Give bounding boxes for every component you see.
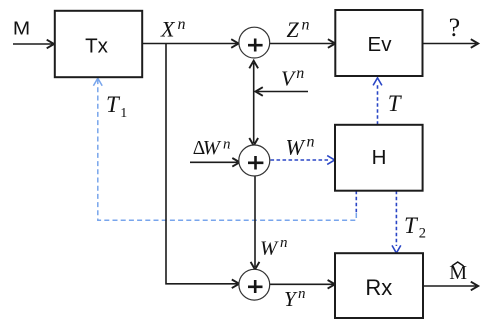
wire H-bottom vertical dark dashed segment (355, 191, 357, 214)
svg-text:X: X (160, 16, 176, 41)
svg-text:n: n (280, 235, 288, 251)
svg-text:2: 2 (419, 225, 426, 241)
svg-text:n: n (302, 17, 310, 34)
svg-text:Tx: Tx (85, 35, 108, 57)
svg-text:W: W (203, 137, 222, 159)
wire Tx output Xn to summer S1 (142, 39, 238, 48)
svg-text:Ev: Ev (368, 33, 393, 56)
wire M input arrow into Tx (13, 40, 54, 49)
label T2 (404, 213, 426, 242)
label Mhat (449, 262, 467, 284)
svg-text:n: n (223, 137, 231, 153)
wire Wn dashed from summer S2 to H (271, 159, 329, 161)
wire Xn branch down and right into summer S3 (166, 44, 239, 289)
wire T dashed from H top to Ev bottom (377, 85, 379, 125)
svg-text:n: n (307, 133, 315, 150)
arrowhead T1 into Tx (open chevron up, light blue) (93, 78, 102, 86)
label Wn middle (286, 133, 315, 159)
svg-text:T: T (106, 92, 121, 117)
wire Zn from summer S1 to Ev (269, 39, 335, 48)
arrowhead Wn into H (open chevron right, blue) (327, 156, 335, 165)
wire Rx output Mhat arrow (423, 282, 478, 291)
wire Ev output to question mark (423, 39, 479, 48)
svg-text:T: T (388, 91, 403, 116)
wire Yn from summer S3 to Rx (270, 280, 335, 289)
wire vertical between summer S1 and summer S2 (arrows both ends) (249, 61, 258, 146)
arrowhead T2 into Rx (open chevron down, blue) (392, 245, 401, 253)
summer S1 (Zn = Xn + Vn) (239, 27, 270, 58)
wire dWn input arrow into summer S2 (190, 158, 240, 167)
wire T1 feedback dashed light-blue L path from H bottom to Tx bottom (98, 80, 357, 221)
svg-text:H: H (372, 146, 387, 169)
label Zn (287, 17, 310, 42)
block Tx (55, 11, 142, 77)
svg-text:Rx: Rx (365, 275, 392, 300)
block H (335, 125, 423, 191)
svg-text:Z: Z (287, 17, 300, 42)
svg-text:M: M (13, 17, 30, 38)
svg-text:?: ? (449, 13, 461, 42)
label T1 (106, 92, 127, 121)
svg-text:W: W (260, 237, 279, 259)
label Yn (284, 286, 306, 311)
svg-text:1: 1 (120, 106, 127, 121)
block Ev (335, 10, 422, 76)
svg-text:T: T (404, 213, 419, 238)
svg-text:n: n (296, 65, 304, 82)
wire T2 dashed from H bottom to Rx top (395, 191, 397, 246)
label Vn (281, 65, 304, 91)
label Xn (160, 16, 186, 41)
summer S3 (Yn = Xn + Wn) (239, 269, 270, 300)
block Rx (335, 253, 423, 318)
label Wn lower (260, 235, 288, 259)
summer S2 (Wn = dWn + Vn) (239, 145, 270, 176)
svg-text:W: W (286, 134, 306, 159)
svg-text:n: n (298, 286, 306, 302)
label dWn (193, 137, 231, 159)
svg-text:n: n (178, 16, 186, 33)
wire Wn from summer S2 down into summer S3 (251, 176, 260, 269)
arrowhead T into Ev (open chevron up, blue) (373, 78, 382, 86)
wire Vn input arrow pointing left into vertical line (255, 87, 308, 96)
